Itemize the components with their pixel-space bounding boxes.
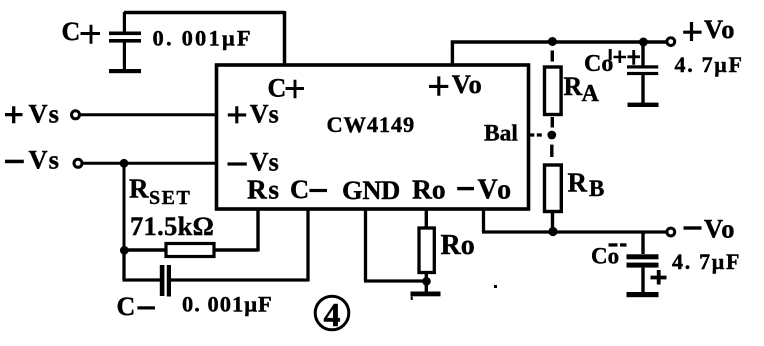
- resistor RA (dashed leads): [545, 51, 562, 128]
- capacitor Co (bottom, 4.7uF electrolytic): [627, 232, 659, 292]
- label RSET: [129, 173, 191, 209]
- junction Ro bottom node: [422, 277, 431, 286]
- capacitor C1 (C+) 0.001uF top-left: [109, 12, 141, 73]
- svg-text:R: R: [129, 173, 149, 203]
- wire: -Vs junction down to RSET node: [123, 163, 126, 250]
- junction Co top on +Vo rail: [639, 38, 648, 47]
- pin label Rs (IC bottom): [247, 173, 281, 204]
- label -Vs (left outside): [5, 145, 60, 175]
- svg-text:Ro: Ro: [412, 173, 446, 204]
- resistor RSET body: [124, 244, 258, 257]
- pin label +Vo (IC top): [429, 69, 482, 99]
- IC name CW4149: [327, 112, 416, 137]
- junction RSET left node: [120, 246, 129, 255]
- svg-text:Vs: Vs: [250, 99, 279, 128]
- svg-text:R: R: [568, 168, 588, 198]
- pin label +Vs (IC left): [228, 99, 279, 128]
- label C+ (top-left capacitor name): [62, 17, 101, 46]
- wire: RSET node down to capacitor C-: [123, 250, 161, 280]
- terminal +Vo output: [667, 38, 675, 46]
- polarity + marks (top Co): [614, 50, 641, 65]
- svg-text:Bal: Bal: [484, 121, 518, 147]
- junction on -Vs line: [120, 159, 129, 168]
- label C- (bottom capacitor name): [117, 292, 156, 321]
- stray ink drip below Ro ground bar: [411, 297, 413, 301]
- label +Vo (right outside): [683, 14, 735, 44]
- label +Vs (left outside): [5, 98, 60, 128]
- svg-text:Vo: Vo: [704, 14, 735, 44]
- svg-text:Co: Co: [591, 243, 619, 268]
- dashed wire: Bal pin to Bal node: [529, 133, 542, 136]
- svg-text:C: C: [117, 292, 136, 321]
- svg-text:R: R: [564, 72, 583, 101]
- svg-text:B: B: [589, 176, 604, 201]
- svg-text:Vs: Vs: [29, 98, 60, 128]
- pin label C- (IC bottom): [290, 174, 327, 204]
- polarity + (bottom Co): [651, 270, 667, 285]
- capacitor C2 (C-) 0.001uF bottom: [160, 265, 171, 297]
- ground symbol below Ro: [411, 292, 441, 297]
- label RB: [568, 168, 605, 201]
- label RA: [564, 72, 600, 107]
- svg-text:C: C: [268, 73, 287, 102]
- label Co (top): [584, 49, 613, 77]
- capacitor Co (top, 4.7uF electrolytic): [627, 42, 658, 103]
- value label 4.7uF (bottom): [672, 249, 741, 274]
- wire: +Vs terminal to IC: [80, 113, 217, 116]
- svg-text:GND: GND: [342, 175, 400, 205]
- junction RA top on +Vo rail: [548, 37, 557, 46]
- label Co (bottom): [591, 243, 627, 268]
- svg-text:Vs: Vs: [29, 145, 60, 175]
- junction RB bottom on -Vo rail: [548, 227, 557, 236]
- svg-text:C: C: [290, 174, 309, 204]
- resistor RB (dashed top lead): [545, 145, 562, 232]
- svg-text:0. 001μF: 0. 001μF: [153, 26, 253, 51]
- pin label -Vo (IC bottom): [457, 175, 513, 206]
- pin label C+ (IC top): [268, 73, 305, 102]
- wire: C+ top loop from capacitor C+ to IC C+ pin: [124, 11, 285, 66]
- ground symbol below bottom Co: [627, 292, 659, 297]
- svg-text:Ro: Ro: [441, 230, 475, 261]
- value label 71.5k ohm: [130, 211, 214, 241]
- svg-text:4. 7μF: 4. 7μF: [672, 249, 741, 274]
- IC U1 CW4149 body: [217, 65, 529, 209]
- wire: -Vs terminal to IC: [83, 162, 218, 165]
- wire: RSET to Rs pin: [256, 208, 259, 252]
- stray ink speck right of Ro: [494, 285, 497, 288]
- pin label Bal (IC right): [484, 121, 518, 147]
- terminal -Vs input: [74, 159, 82, 167]
- pin label -Vs (IC left): [228, 148, 279, 177]
- svg-text:Vo: Vo: [704, 214, 735, 244]
- ground symbol below top Co: [628, 103, 659, 107]
- svg-text:Vo: Vo: [452, 69, 482, 99]
- svg-text:4: 4: [324, 297, 341, 334]
- value label 0.001uF (top): [153, 26, 253, 51]
- label -Vo (right outside): [684, 214, 735, 244]
- wire: -Vo pin down to -Vo rail: [482, 208, 667, 232]
- svg-text:Vo: Vo: [478, 175, 514, 206]
- svg-text:71.5kΩ: 71.5kΩ: [130, 211, 214, 241]
- resistor Ro body: [419, 208, 434, 292]
- figure number circled 4: [315, 296, 349, 334]
- svg-text:4. 7μF: 4. 7μF: [675, 52, 744, 77]
- svg-text:0. 001μF: 0. 001μF: [182, 292, 273, 317]
- terminal -Vo output: [667, 228, 675, 236]
- junction Bal node: [547, 131, 556, 140]
- wire: +Vo pin up to +Vo rail: [451, 42, 667, 66]
- terminal +Vs input: [72, 111, 80, 119]
- pin label Ro (IC bottom): [412, 173, 446, 204]
- svg-text:Rs: Rs: [247, 173, 281, 204]
- svg-text:C: C: [62, 17, 81, 46]
- value label 4.7uF (top): [675, 52, 744, 77]
- svg-text:A: A: [582, 81, 600, 107]
- svg-text:SET: SET: [149, 187, 191, 209]
- label Ro: [441, 230, 475, 261]
- pin label GND (IC bottom): [342, 175, 400, 205]
- svg-text:CW4149: CW4149: [327, 112, 416, 137]
- wire: capacitor C- to IC C- pin: [171, 208, 308, 282]
- wire: GND pin to Ro ground node: [364, 208, 426, 281]
- value label 0.001uF (bottom): [182, 292, 273, 317]
